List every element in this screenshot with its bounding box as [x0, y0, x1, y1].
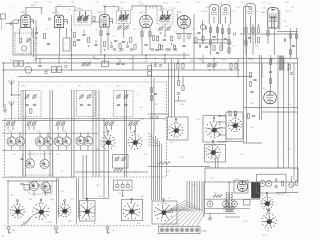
tube V8 6V6GT: [246, 4, 256, 45]
wire det link b: [198, 39, 230, 41]
resistor R217: [170, 36, 172, 41]
capacitor C441: [20, 183, 23, 184]
resistor R263: [134, 45, 136, 50]
junction mid c: [45, 69, 46, 70]
wire subfan c: [33, 191, 35, 196]
svg-text:C60: C60: [154, 104, 159, 106]
capacitor C502: [290, 73, 293, 74]
box around S1c: [168, 117, 189, 140]
wire mid tap 8: [193, 55, 195, 70]
junction mid tap 16: [93, 58, 94, 59]
junction stage2: [71, 29, 72, 30]
svg-text:L 20: L 20: [48, 2, 53, 4]
wire tuner shield 8: [98, 90, 100, 177]
wire det link a: [194, 42, 232, 44]
resistor R603: [281, 181, 283, 186]
junction dot 1: [104, 6, 106, 8]
junction dot 20: [56, 180, 58, 182]
junction fan 0: [11, 133, 12, 134]
svg-text:R6: R6: [95, 29, 99, 31]
capacitor C205: [49, 17, 50, 20]
junction mid tap 14: [287, 69, 288, 70]
wire TS2 up: [189, 181, 191, 207]
wire top loop L4: [132, 6, 162, 10]
wire fuse lead: [290, 176, 292, 182]
trimmer C437: [121, 156, 126, 161]
wire mid tap 1: [58, 55, 60, 63]
wire terminal lead 3: [220, 134, 227, 136]
rotary switch S3 main: [154, 199, 173, 222]
wire tuner shield 1: [25, 90, 27, 177]
terminal TS5: [180, 228, 184, 232]
trimmer row C422b: [60, 121, 65, 126]
svg-text:R61: R61: [214, 193, 219, 195]
trimmer C301: [81, 61, 86, 66]
wire stage1 top link: [13, 19, 21, 21]
junction stage3: [104, 49, 105, 50]
wire stage4 down a: [141, 28, 143, 56]
wire trimmer 5 lead: [62, 125, 64, 130]
wire fan 2 top lead: [39, 133, 41, 137]
resistor R224: [228, 29, 230, 34]
svg-text:S2A: S2A: [28, 198, 33, 201]
junction low mid: [35, 181, 36, 182]
svg-text:S1E: S1E: [229, 139, 234, 141]
rotary switch S2c: [58, 200, 71, 218]
variable capacitor C430b: [15, 136, 24, 146]
svg-text:R42: R42: [287, 149, 292, 151]
trimmer row C423b: [109, 121, 114, 126]
svg-text:R16: R16: [236, 7, 241, 9]
svg-text:T60: T60: [210, 178, 214, 180]
junction dot 12: [103, 119, 105, 121]
svg-text:L2: L2: [40, 9, 43, 11]
S2b wire arcs: [24, 214, 34, 226]
box around S1f: [205, 145, 226, 163]
antenna ANT2: [9, 101, 15, 111]
capacitor C250: [197, 32, 200, 33]
wire cable bundle 1: [153, 134, 155, 201]
terminal TS7: [190, 228, 194, 232]
resistor R227: [252, 28, 254, 33]
svg-text:R24: R24: [270, 60, 275, 62]
svg-text:R38: R38: [96, 185, 101, 187]
svg-text:C40: C40: [139, 107, 144, 109]
wire V5 left lead: [177, 14, 179, 20]
resistor R253: [228, 48, 230, 53]
terminal block left edge: [1, 14, 6, 19]
wire under V10 b: [262, 111, 298, 113]
wire tuner shield 10: [126, 90, 128, 177]
wire mid tap 12: [261, 63, 263, 77]
wire stage2 down a: [59, 28, 61, 56]
junction dot 13: [3, 62, 5, 64]
svg-text:C17: C17: [192, 29, 197, 31]
wire fan 3 bottom lead: [47, 146, 49, 150]
resistor R234: [289, 50, 291, 55]
ground ps: [208, 218, 212, 220]
electrolytic C606: [232, 200, 238, 207]
svg-text:F1: F1: [287, 195, 290, 197]
wire mid tap 16: [93, 55, 95, 59]
box power boundary: [205, 168, 298, 182]
trimmer C202: [26, 37, 31, 42]
resistor R604: [295, 181, 297, 186]
terminal S1e 1: [219, 121, 221, 123]
resistor R406: [234, 111, 236, 116]
junction dot 6: [117, 62, 119, 64]
wire fan 1 bottom lead: [19, 146, 21, 150]
wire power vert a: [215, 157, 217, 168]
wire trimmer 3 lead: [33, 125, 35, 130]
wire V9 down a: [267, 28, 269, 45]
junction mid tap 10: [213, 69, 214, 70]
junction fan 3: [47, 133, 48, 134]
wire gnd left: [4, 104, 6, 110]
resistor R235: [195, 38, 197, 43]
capacitor C407: [80, 104, 83, 105]
wire fan 5 top lead: [66, 133, 68, 137]
wire fan row top link: [2, 132, 98, 134]
wire fan 4 bottom lead: [58, 146, 60, 150]
dense coil hatch: [280, 56, 284, 71]
wire fan 1 top lead: [19, 133, 21, 137]
resistor R301: [177, 64, 179, 69]
junction fan 4: [58, 133, 59, 134]
wire V9 right lead: [279, 10, 281, 30]
wire stage1 right a: [30, 39, 32, 55]
capacitor C216: [122, 41, 125, 42]
wire left of cans: [202, 20, 204, 43]
svg-text:C58: C58: [287, 104, 292, 106]
resistor R601: [213, 195, 222, 198]
wire cable bundle 4: [159, 141, 161, 200]
wire ant1 down: [11, 90, 13, 96]
tube V11 5Y3GT: [238, 182, 248, 192]
box mixer pad: [113, 155, 129, 169]
svg-text:J2: J2: [10, 60, 13, 62]
wire T203 down: [164, 24, 166, 36]
svg-text:OSC: OSC: [21, 86, 26, 88]
svg-text:AVC: AVC: [137, 222, 142, 225]
svg-text:T203: T203: [160, 8, 166, 10]
IF transformer T201: [74, 11, 92, 26]
svg-text:S1A: S1A: [103, 131, 108, 134]
variable capacitor C433b: [83, 136, 92, 146]
trimmer row C421b: [31, 121, 36, 126]
cable fan arcs: [148, 133, 152, 136]
junction mid tap 13: [271, 62, 272, 63]
wire ll vert c: [58, 178, 60, 218]
wire ll vert g: [86, 155, 88, 198]
junction fan 2: [39, 133, 40, 134]
wire stage2 long: [70, 15, 72, 55]
dashed box tuner A2: [77, 91, 96, 117]
svg-text:C20: C20: [283, 21, 288, 23]
wire right vert c: [259, 55, 261, 120]
trimmer C220: [158, 26, 163, 31]
tube V5 cross: [180, 18, 188, 26]
wire mid tap 7: [183, 52, 185, 59]
socket circle det: [200, 24, 205, 29]
wire right vert d: [261, 55, 263, 120]
wire ll vert a: [7, 181, 9, 225]
wire ll vert f: [82, 155, 84, 198]
svg-text:6SK7: 6SK7: [21, 11, 28, 14]
trimmer C307: [207, 62, 212, 67]
wire ant2 down: [11, 111, 13, 121]
resistor R502: [249, 82, 251, 87]
capacitor C252: [205, 46, 208, 47]
wire ps bus a: [204, 198, 260, 200]
wire TS2 drop: [167, 207, 190, 226]
capacitor C228: [234, 32, 235, 35]
svg-text:AL: AL: [2, 235, 5, 238]
resistor R231: [257, 38, 259, 43]
wire ll vert e: [78, 178, 80, 218]
svg-text:C56: C56: [240, 154, 245, 156]
trimmer C436: [114, 156, 119, 161]
capacitor C261: [47, 43, 50, 44]
svg-text:C9: C9: [46, 29, 50, 31]
wire TS6 up: [199, 181, 201, 211]
rotary switch S2e: [123, 198, 140, 220]
svg-text:PH: PH: [12, 230, 15, 232]
svg-text:6V6: 6V6: [255, 11, 259, 13]
capacitor C207: [77, 39, 80, 40]
svg-text:6J5GT: 6J5GT: [202, 11, 209, 13]
wire T202 down: [123, 23, 125, 38]
resistor R210: [130, 38, 132, 43]
wire ll vert b: [56, 178, 58, 225]
wire fan 4 top lead: [58, 133, 60, 137]
svg-text:S103: S103: [262, 235, 268, 237]
wire T201 out: [92, 21, 101, 23]
wire tuner shield 7: [95, 90, 97, 177]
wire mid tap 0: [39, 59, 41, 64]
wire can1 down b: [217, 24, 219, 43]
svg-text:6SK7: 6SK7: [139, 11, 146, 14]
junction mid tap 7: [183, 58, 184, 59]
resistor R219: [188, 34, 190, 39]
svg-text:6SQ: 6SQ: [285, 2, 289, 4]
capacitor C253: [155, 49, 158, 50]
wire right vert a: [243, 7, 245, 143]
T602 windings: [251, 183, 253, 197]
ground left: [3, 110, 7, 112]
svg-text:R7: R7: [286, 26, 289, 28]
svg-text:C22: C22: [240, 1, 245, 3]
capacitor C608: [276, 185, 277, 188]
wire cable bundle 3: [157, 139, 159, 201]
box AC input: [257, 174, 287, 193]
resistor R304: [235, 64, 237, 69]
svg-text:R21: R21: [196, 2, 201, 4]
resistor R222: [209, 40, 211, 45]
junction mid tap 5: [145, 58, 146, 59]
trimmer C402: [32, 94, 37, 99]
resistor R236 on bus: [158, 45, 160, 50]
terminal TS4: [175, 228, 179, 232]
wire b5: [127, 42, 129, 45]
junction mid tap 2: [71, 69, 72, 70]
wire mid tap 10: [213, 59, 215, 71]
resistor R602 box: [244, 200, 251, 206]
terminal S1e 3: [219, 134, 221, 136]
junction mid tap 1: [58, 62, 59, 63]
capacitor C263: [94, 44, 97, 45]
wire R310 lead2: [178, 96, 180, 101]
resistor R220: [209, 28, 211, 33]
svg-text:T202: T202: [119, 8, 125, 10]
wire top loop L2: [56, 7, 75, 15]
junction dot 5: [164, 54, 166, 56]
capacitor C241 on bus: [120, 49, 123, 50]
svg-text:C3: C3: [118, 193, 121, 195]
terminal TS6: [185, 228, 189, 232]
svg-text:R40: R40: [10, 195, 15, 197]
dashed box lower fans: [29, 181, 52, 194]
wire mid tap 11: [237, 59, 239, 77]
resistor R261: [87, 38, 89, 43]
wire R230 lead: [258, 24, 260, 27]
junction b2: [88, 45, 89, 46]
wire fan 7 bottom lead: [87, 146, 89, 150]
capacitor C408: [87, 104, 90, 105]
svg-text:L21: L21: [262, 2, 266, 4]
box small det b: [148, 72, 152, 76]
capacitor C320: [38, 65, 41, 66]
rotary switch S1d: [206, 117, 223, 138]
rotary switch S1b: [128, 130, 143, 149]
junction S1c top: [153, 113, 154, 114]
svg-text:C52: C52: [192, 185, 197, 187]
junction dot 2: [71, 54, 73, 56]
dashed bottom line: [4, 225, 150, 227]
svg-text:P101: P101: [203, 231, 209, 233]
rotary switch S5: [261, 209, 277, 229]
resistor R254: [160, 45, 162, 50]
variable capacitor C438b: [40, 159, 49, 169]
box around S2d: [80, 201, 96, 222]
wire mid tap 13: [271, 59, 273, 64]
variable capacitor C431b: [43, 136, 52, 146]
svg-text:C202: C202: [33, 2, 39, 4]
junction dot 15: [213, 58, 215, 60]
wire stage5 link: [176, 33, 192, 35]
trimmer C401: [24, 94, 29, 99]
wire ps bus b: [204, 208, 250, 210]
resistor R405: [229, 111, 231, 116]
svg-text:B+: B+: [268, 3, 271, 5]
wire V4 top lead: [145, 6, 147, 15]
svg-text:V7: V7: [228, 2, 231, 4]
capacitor C222: [163, 39, 166, 40]
capacitor C503: [269, 71, 272, 72]
wire mid tap 3: [104, 55, 106, 63]
svg-text:R22: R22: [222, 60, 227, 62]
coil shield below V1: [20, 27, 33, 38]
wire mid tap 5: [145, 55, 147, 59]
socket circles: [259, 180, 265, 186]
resistor R229: [267, 31, 269, 36]
svg-text:MIX: MIX: [116, 86, 120, 88]
wire trimmer 9 lead: [135, 125, 137, 130]
variable capacitor C438a: [25, 158, 34, 168]
variable capacitor C432b: [62, 136, 71, 146]
capacitor C229: [248, 37, 251, 38]
capacitor C232: [199, 44, 200, 47]
wire under IF row: [13, 54, 190, 56]
junction dot 9: [209, 69, 211, 71]
resistor R255: [173, 45, 175, 50]
resistor R213: [149, 32, 151, 37]
jack J1: [7, 227, 11, 234]
box small det a: [148, 66, 152, 70]
svg-text:SEL: SEL: [93, 223, 98, 225]
svg-text:C1: C1: [12, 8, 15, 10]
wire trimmer 1 lead: [12, 125, 14, 130]
junction b1: [36, 37, 37, 38]
svg-text:S3: S3: [168, 198, 171, 200]
svg-text:S1C: S1C: [170, 142, 175, 144]
svg-text:BFO: BFO: [68, 221, 73, 223]
capacitor C265: [126, 46, 129, 47]
resistor R250: [202, 36, 204, 41]
junction dot 3: [104, 54, 106, 56]
svg-text:L209: L209: [120, 2, 125, 4]
jack J2: [55, 227, 59, 234]
capacitor C305: [154, 65, 157, 66]
svg-text:6H6: 6H6: [177, 11, 182, 14]
wire top loop L1: [26, 7, 42, 15]
wire center vert i: [174, 63, 176, 117]
wire R310 lead: [178, 70, 180, 81]
wire mid low b: [75, 171, 148, 173]
wire right vert g: [288, 63, 290, 168]
resistor R251: [213, 46, 215, 51]
box small mid2: [57, 67, 62, 73]
junction dot 14: [28, 62, 30, 64]
capacitor C501: [253, 79, 256, 80]
dashed box tuner A3: [114, 91, 134, 117]
wire ll vert h: [103, 120, 105, 199]
wire power horiz: [205, 167, 298, 169]
wire trimmer 8 lead: [130, 125, 132, 130]
svg-text:S2B: S2B: [50, 199, 55, 201]
choke L601: [226, 209, 234, 212]
box around S2e: [121, 199, 142, 220]
wire ant1 into tuner: [12, 94, 22, 96]
junction mid b: [155, 58, 156, 59]
dashed tuner enclosure lower: [5, 119, 167, 178]
svg-text:6C8: 6C8: [231, 11, 236, 13]
wire center vert 0: [151, 63, 153, 131]
wire can2 down b: [228, 24, 230, 55]
wire subfan d: [45, 191, 47, 196]
box oscillator coil L205: [63, 38, 70, 51]
rotary switch S2b: [32, 199, 49, 220]
terminal strip frame: [159, 226, 201, 233]
resistor R408: [158, 162, 170, 165]
junction T203 a: [164, 35, 165, 36]
capacitor C412: [124, 104, 127, 105]
wire mid low c: [2, 176, 75, 178]
can circle left: [25, 66, 32, 73]
rotary switch S1c: [168, 118, 183, 137]
wire fan 0 top lead: [11, 133, 13, 137]
svg-text:6F5: 6F5: [262, 88, 266, 90]
